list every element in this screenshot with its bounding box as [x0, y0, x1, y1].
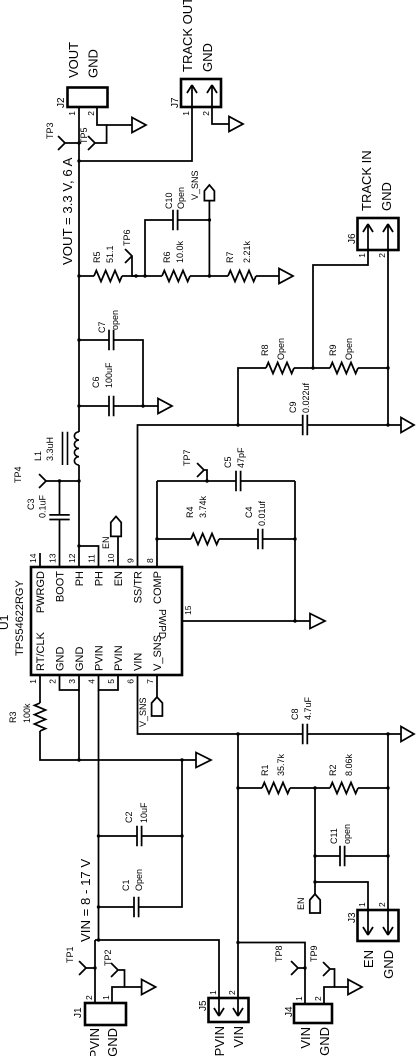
- test point TP8: [292, 962, 306, 975]
- connector J5: [209, 998, 249, 1022]
- ground at J7 pin 2: [229, 117, 243, 132]
- svg-text:EN: EN: [361, 950, 376, 968]
- svg-text:VIN: VIN: [298, 1027, 313, 1049]
- svg-text:TP2: TP2: [103, 949, 113, 966]
- wire R2 to gnd link: [358, 787, 388, 789]
- op-amp U1 regulator TPS54622RGY body: [31, 567, 182, 675]
- svg-text:PWRGD: PWRGD: [35, 571, 47, 613]
- wire C5 to bottom rail: [241, 480, 295, 482]
- svg-text:TRACK OUT: TRACK OUT: [180, 0, 195, 72]
- svg-text:100k: 100k: [22, 703, 32, 723]
- svg-text:8: 8: [145, 558, 155, 563]
- svg-text:2: 2: [377, 253, 387, 258]
- svg-text:PH: PH: [74, 571, 86, 586]
- test point TP1: [80, 962, 96, 975]
- resistor R6 10.0k: [162, 271, 190, 282]
- svg-text:C3: C3: [26, 498, 36, 510]
- resistor R5 51.1: [94, 271, 122, 282]
- junction PVIN rail on riser: [97, 938, 100, 941]
- svg-text:J4: J4: [284, 1006, 295, 1017]
- svg-text:35.7k: 35.7k: [276, 753, 286, 776]
- resistor R3 100k: [35, 703, 46, 731]
- test point TP5: [89, 125, 107, 150]
- wire C1 branch lower: [139, 760, 182, 907]
- wire COMP pin 8 node: [156, 481, 158, 567]
- junction R8 tap on SS column: [236, 423, 239, 426]
- wire J2 pin 2 to ground: [97, 107, 132, 125]
- svg-text:C5: C5: [223, 456, 233, 468]
- svg-text:Open: Open: [134, 869, 144, 891]
- svg-text:TP6: TP6: [122, 229, 132, 246]
- junction R8-R9 node to J6 pin 1: [311, 366, 314, 369]
- wire J7 pin 2 to ground: [212, 107, 229, 124]
- svg-text:0.022uf: 0.022uf: [301, 382, 311, 413]
- resistor R9 Open: [330, 363, 358, 374]
- svg-text:9: 9: [126, 558, 136, 563]
- connector J3: [358, 910, 399, 941]
- wire C6 column upper: [79, 405, 109, 407]
- svg-text:10.0k: 10.0k: [175, 240, 185, 263]
- wire C10 bottom to divider tap: [178, 220, 210, 276]
- wire R9 to J6 pin 2 row: [358, 367, 388, 369]
- svg-text:J2: J2: [56, 97, 67, 108]
- wire to V_SNS flag at C10: [208, 201, 210, 220]
- svg-text:13: 13: [48, 553, 58, 563]
- svg-text:GND: GND: [379, 182, 394, 211]
- wire divider to C10 top: [145, 220, 173, 276]
- svg-text:EN: EN: [101, 536, 111, 549]
- svg-text:GND: GND: [55, 647, 67, 672]
- wire SS column to R8: [238, 368, 266, 425]
- junction TP1 on J1 wire: [93, 966, 96, 969]
- svg-text:C1: C1: [121, 879, 131, 891]
- svg-text:1: 1: [28, 679, 38, 684]
- inductor L1 3.3uH: [63, 432, 80, 465]
- wire divider top: [238, 787, 262, 789]
- svg-text:C11: C11: [329, 828, 339, 844]
- ground below pin 15: [310, 614, 325, 629]
- svg-text:R3: R3: [8, 711, 18, 723]
- junction C11 bottom on gnd link: [386, 854, 389, 857]
- svg-text:C2: C2: [124, 811, 134, 823]
- wire J1 pin 1 gnd: [112, 987, 142, 1003]
- connector J2: [68, 88, 108, 108]
- junction C7 column on VOUT wire: [77, 338, 80, 341]
- svg-text:TP5: TP5: [79, 127, 89, 144]
- wire EN pin 10 stub: [117, 537, 119, 567]
- svg-text:J1: J1: [73, 1007, 84, 1018]
- svg-text:8.06k: 8.06k: [344, 753, 354, 776]
- svg-text:VIN: VIN: [231, 1026, 246, 1048]
- wire C4 to bottom rail: [263, 538, 295, 540]
- ground below C6: [158, 399, 172, 414]
- resistor R4 3.74k: [191, 534, 219, 545]
- J7 pin 2 header arrow: [207, 85, 217, 107]
- capacitor C2 10uF: [137, 826, 142, 846]
- net flag V_SNS at C10: [204, 185, 214, 201]
- svg-text:51.1: 51.1: [105, 245, 115, 263]
- connector J4: [294, 1004, 332, 1023]
- capacitor C11 open: [340, 846, 345, 866]
- svg-text:2: 2: [313, 996, 323, 1001]
- junction V_SNS tap between R6 and R7: [208, 274, 211, 277]
- J6 pin 2 header arrow: [383, 224, 393, 250]
- J5 pin 2 header arrow: [233, 998, 243, 1016]
- svg-text:J6: J6: [347, 233, 358, 244]
- junction J4 branch on VIN trunk: [236, 941, 239, 944]
- wire C11 branch upper: [315, 855, 340, 857]
- svg-text:2: 2: [84, 995, 94, 1000]
- junction C2 bottom on gnd line: [180, 834, 183, 837]
- svg-text:1: 1: [181, 111, 191, 116]
- ground at J2 pin 2: [132, 118, 146, 133]
- svg-text:3.3uH: 3.3uH: [45, 437, 55, 461]
- svg-text:open: open: [342, 824, 352, 844]
- svg-text:PVIN: PVIN: [94, 645, 106, 671]
- junction J2-J7 link on VOUT wire: [77, 159, 80, 162]
- wire C7 column lower: [114, 340, 143, 406]
- svg-text:V_SNS: V_SNS: [190, 170, 200, 200]
- wire VOUT to R5: [79, 275, 94, 277]
- wire R8-R9 node to J6 pin 1: [313, 250, 368, 368]
- junction divider column on VOUT wire: [77, 274, 80, 277]
- wire SS/TR pin 9 to C9 column: [138, 425, 303, 567]
- test point TP2: [112, 964, 125, 988]
- wire R1 to R2: [290, 787, 330, 789]
- wire C7 column upper: [79, 339, 109, 341]
- svg-text:GND: GND: [381, 950, 396, 979]
- capacitor C7 open: [109, 330, 114, 350]
- connector J6: [358, 218, 399, 250]
- wire EN flag stub: [314, 882, 316, 894]
- svg-text:0.01uf: 0.01uf: [257, 500, 267, 526]
- ground input bus: [196, 753, 211, 768]
- svg-text:R6: R6: [162, 251, 172, 263]
- junction J6 gnd on C9 column: [386, 423, 389, 426]
- svg-text:R8: R8: [260, 344, 270, 356]
- wire R6 to R7: [190, 275, 228, 277]
- svg-text:R9: R9: [328, 344, 338, 356]
- svg-text:GND: GND: [105, 1028, 120, 1056]
- wire GND pins 2-3 bracket: [60, 675, 80, 690]
- svg-text:10: 10: [106, 553, 116, 563]
- svg-text:VIN: VIN: [133, 653, 145, 671]
- wire EN node to J3 pin 1 column: [315, 788, 368, 910]
- J5 pin 1 header arrow: [214, 998, 224, 1016]
- junction C10 bottom corner: [208, 218, 211, 221]
- connector J7: [181, 79, 221, 107]
- wire C2 branch lower: [142, 835, 182, 837]
- wire R5 to R6 (V_SNS node): [122, 275, 162, 277]
- svg-text:VOUT: VOUT: [66, 42, 81, 78]
- junction gnd link on C8 column: [386, 732, 389, 735]
- test point TP4: [40, 475, 80, 488]
- resistor R7 2.21k: [228, 271, 256, 282]
- resistor R8 Open: [266, 363, 294, 374]
- svg-text:1: 1: [294, 996, 304, 1001]
- junction TP7 on C5 branch: [205, 479, 208, 482]
- wire C9 column lower: [307, 424, 401, 426]
- svg-text:2.21k: 2.21k: [242, 240, 252, 263]
- wire C8 column lower: [307, 733, 401, 735]
- capacitor C8 4.7uF: [303, 724, 308, 744]
- svg-text:1: 1: [101, 995, 111, 1000]
- svg-text:TRACK IN: TRACK IN: [359, 150, 374, 211]
- wire VOUT to J7 pin 1 link: [79, 107, 192, 161]
- connector J1: [85, 1003, 126, 1025]
- svg-text:Open: Open: [344, 338, 354, 360]
- svg-text:PWPD: PWPD: [156, 609, 167, 639]
- svg-text:47pF: 47pF: [236, 447, 246, 468]
- junction VIN trunk on C8 column: [236, 732, 239, 735]
- wire C11 branch lower: [345, 855, 388, 857]
- test point TP3: [59, 137, 80, 150]
- svg-text:1: 1: [208, 990, 218, 995]
- svg-text:R5: R5: [92, 251, 102, 263]
- wire GND pins to bus: [78, 690, 80, 760]
- svg-text:15: 15: [183, 605, 193, 615]
- test point TP6: [126, 250, 139, 277]
- resistor R1 35.7k: [262, 783, 290, 794]
- svg-text:12: 12: [67, 553, 77, 563]
- J3 pin 2 header arrow: [383, 910, 393, 935]
- junction EN flag on J3 column: [313, 880, 316, 883]
- wire R4 branch upper: [157, 538, 191, 540]
- svg-text:J5: J5: [198, 1000, 209, 1011]
- svg-text:C8: C8: [290, 708, 300, 720]
- wire RT/CLK pin 1 to R3: [39, 675, 41, 703]
- wire PVIN pins 4-5 bracket: [99, 675, 119, 690]
- svg-text:J7: J7: [170, 97, 181, 108]
- junction C6-C7 ground tie: [141, 404, 144, 407]
- svg-text:V_SNS: V_SNS: [138, 697, 148, 727]
- svg-text:PH: PH: [94, 571, 106, 586]
- J7 pin 1 header arrow: [187, 85, 197, 107]
- wire pin 15 PWPD to ground: [182, 620, 310, 622]
- svg-text:TP8: TP8: [274, 945, 284, 962]
- capacitor C1 Open: [134, 897, 139, 917]
- svg-text:R1: R1: [260, 764, 270, 776]
- net flag EN at J3: [310, 894, 320, 913]
- junction EN node: [313, 786, 316, 789]
- svg-text:4.7uF: 4.7uF: [303, 696, 313, 720]
- svg-text:6: 6: [126, 679, 136, 684]
- wire V_SNS pin 7 stub: [156, 675, 158, 697]
- svg-text:0.1uF: 0.1uF: [38, 494, 48, 518]
- ground below R7: [279, 269, 293, 284]
- wire J6 pin 2 to ground net: [387, 250, 389, 425]
- svg-text:2: 2: [48, 679, 58, 684]
- svg-text:GND: GND: [74, 647, 86, 672]
- capacitor C5 47pF: [236, 471, 241, 491]
- svg-text:2: 2: [377, 902, 387, 907]
- net flag EN at pin 10: [111, 516, 121, 536]
- junction R4 branch on COMP node: [155, 537, 158, 540]
- wire PVIN rail: [98, 690, 100, 940]
- junction R9 bottom on gnd wire: [386, 366, 389, 369]
- wire C2 branch upper: [99, 835, 138, 837]
- wire R4 to C4: [219, 538, 258, 540]
- wire R8 to R9 node: [294, 367, 330, 369]
- svg-text:EN: EN: [296, 897, 306, 910]
- svg-text:C6: C6: [91, 376, 101, 388]
- svg-text:U1: U1: [0, 614, 11, 630]
- svg-text:L1: L1: [33, 451, 43, 461]
- wire VIN trunk: [237, 734, 239, 998]
- junction C11 top: [313, 854, 316, 857]
- svg-text:PVIN: PVIN: [113, 645, 125, 671]
- capacitor C4 0.01uf: [258, 529, 263, 549]
- wire C3 to TP4 column: [59, 481, 61, 515]
- wire J1 pin 2 to rail corner: [94, 940, 96, 1003]
- svg-text:TPS54622RGY: TPS54622RGY: [14, 580, 26, 656]
- svg-text:100uF: 100uF: [104, 362, 114, 388]
- ground at J1 pin 1: [142, 980, 156, 995]
- svg-text:C10: C10: [164, 192, 174, 209]
- wire gnd link J3 to C8: [387, 734, 389, 910]
- net flag V_SNS at pin 7: [152, 697, 163, 716]
- wire J4 pin 2 gnd: [324, 987, 348, 1004]
- svg-text:14: 14: [28, 553, 38, 563]
- wire BOOT pin 13 to C3: [59, 520, 61, 568]
- junction PH bracket: [77, 544, 80, 547]
- svg-text:RT/CLK: RT/CLK: [35, 631, 47, 671]
- capacitor C9 0.022uf: [303, 415, 308, 435]
- svg-text:EN: EN: [113, 571, 125, 586]
- junction TP3 on VOUT wire: [77, 141, 80, 144]
- test point TP9: [324, 963, 335, 988]
- svg-text:PVIN: PVIN: [212, 1026, 227, 1056]
- svg-text:C7: C7: [97, 321, 107, 333]
- svg-text:2: 2: [201, 111, 211, 116]
- resistor R2 8.06k: [330, 783, 358, 794]
- svg-text:Open: Open: [276, 338, 286, 360]
- svg-text:VOUT = 3.3 V, 6 A: VOUT = 3.3 V, 6 A: [60, 157, 75, 265]
- svg-text:PVIN: PVIN: [87, 1028, 102, 1056]
- svg-text:10uF: 10uF: [139, 802, 149, 823]
- junction R4-C4 bottom: [293, 537, 296, 540]
- wire PVIN riser down to J5 pin 1: [95, 940, 219, 998]
- junction gnd wire on bus: [77, 758, 80, 761]
- wire COMP bottom rail: [294, 481, 296, 621]
- svg-text:R2: R2: [328, 764, 338, 776]
- wire PH node to J2 pin 1 (VOUT net): [78, 465, 80, 567]
- svg-text:open: open: [110, 310, 120, 330]
- junction C6 column on VOUT wire: [77, 404, 80, 407]
- svg-text:COMP: COMP: [152, 571, 164, 604]
- junction TP4 column on PH wire: [77, 479, 80, 482]
- wire C5 branch upper: [157, 480, 236, 482]
- capacitor C3 0.1uF: [49, 515, 69, 520]
- wire R3 to gnd bus: [40, 731, 196, 760]
- junction C10 tap on divider: [143, 274, 146, 277]
- junction TP8 on J4 wire: [303, 966, 306, 969]
- junction gnd line on bus: [180, 758, 183, 761]
- svg-text:GND: GND: [86, 49, 101, 78]
- wire R7 to ground: [256, 275, 279, 277]
- junction C1 on PVIN rail: [97, 905, 100, 908]
- svg-text:C4: C4: [244, 506, 254, 518]
- svg-text:C9: C9: [288, 401, 298, 413]
- svg-text:R7: R7: [225, 251, 235, 263]
- ground at J4 pin 2: [348, 980, 362, 995]
- svg-text:1: 1: [357, 253, 367, 258]
- svg-text:5: 5: [106, 679, 116, 684]
- wire VOUT net L1 to J2: [78, 107, 80, 432]
- wire C1 branch upper: [99, 906, 135, 908]
- junction C3 line on TP4 column: [58, 479, 61, 482]
- svg-text:1: 1: [357, 902, 367, 907]
- svg-text:4: 4: [87, 679, 97, 684]
- svg-text:1: 1: [67, 111, 77, 116]
- junction C2 on PVIN rail: [97, 834, 100, 837]
- svg-text:SS/TR: SS/TR: [133, 571, 145, 603]
- wire PH pins 12-11 bracket: [79, 546, 99, 567]
- U1 pin 14 PWRGD stub: [39, 553, 41, 567]
- J3 pin 1 header arrow: [363, 910, 373, 935]
- wire VIN pin 6 to C8 column: [138, 675, 303, 734]
- junction EN divider on VIN trunk: [236, 786, 239, 789]
- svg-text:TP7: TP7: [182, 449, 192, 466]
- svg-text:3: 3: [67, 679, 77, 684]
- wire VIN trunk to J4 pin 1: [238, 943, 305, 1005]
- svg-text:TP4: TP4: [13, 466, 23, 483]
- svg-text:Open: Open: [176, 187, 186, 209]
- svg-text:2: 2: [227, 990, 237, 995]
- svg-text:VIN = 8 - 17 V: VIN = 8 - 17 V: [78, 859, 93, 942]
- svg-text:2: 2: [86, 111, 96, 116]
- ground below C8: [401, 727, 414, 742]
- svg-text:GND: GND: [200, 43, 215, 72]
- svg-text:TP3: TP3: [45, 122, 55, 139]
- wire C6 column lower: [114, 405, 158, 407]
- capacitor C10 Open: [173, 210, 178, 230]
- svg-text:11: 11: [87, 554, 97, 563]
- svg-text:R4: R4: [185, 506, 195, 518]
- svg-text:3.74k: 3.74k: [198, 495, 208, 518]
- capacitor C6 100uF: [109, 396, 114, 416]
- svg-text:TP9: TP9: [309, 945, 319, 962]
- J6 pin 1 header arrow: [363, 224, 373, 250]
- svg-text:7: 7: [145, 679, 155, 684]
- svg-text:J3: J3: [347, 912, 358, 923]
- svg-text:BOOT: BOOT: [55, 571, 67, 602]
- svg-text:TP1: TP1: [65, 946, 75, 963]
- junction bottom rail on PWPD column: [293, 619, 296, 622]
- junction R2 bottom on gnd link: [386, 786, 389, 789]
- junction TP6 tap on divider: [134, 274, 137, 277]
- test point TP7: [198, 464, 208, 482]
- ground below C9: [401, 418, 414, 433]
- svg-text:V_SNS: V_SNS: [152, 635, 164, 671]
- svg-text:GND: GND: [317, 1027, 332, 1056]
